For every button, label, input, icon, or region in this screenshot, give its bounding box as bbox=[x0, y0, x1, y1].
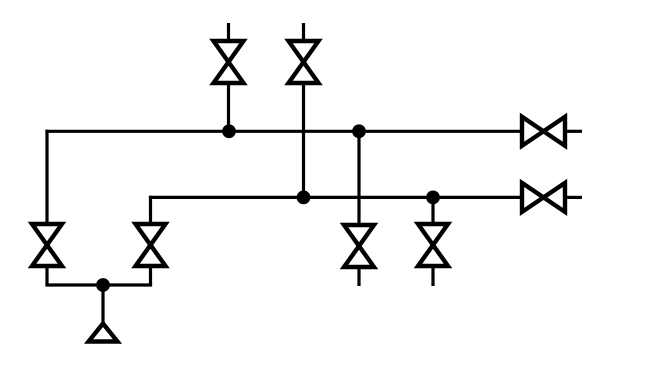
valve V3 (vertical, far left) bbox=[32, 224, 62, 266]
wire V1 bottom to node A bbox=[227, 83, 230, 131]
wire node B down to valve V5 (crosses lower header, no junction) bbox=[357, 131, 360, 225]
wire lower header line bbox=[149, 196, 522, 199]
valve V7 (horizontal, upper right) bbox=[522, 117, 565, 146]
valve V6 (vertical, right lower) bbox=[418, 224, 448, 266]
wire upper header line bbox=[45, 130, 522, 133]
wire bottom drain line bbox=[45, 283, 152, 286]
valve V2 (vertical, top right) bbox=[289, 41, 319, 83]
node A (junction on upper header at valve V1 stem) bbox=[222, 124, 236, 138]
wire V2 bottom to node C (crosses upper header, no junction) bbox=[302, 83, 305, 197]
wire below valve V6 bbox=[431, 266, 434, 286]
wire valve V3 bottom to drain line bbox=[45, 266, 48, 285]
valve V8 (horizontal, lower right) bbox=[522, 183, 565, 212]
vent/drain symbol (open triangle) bbox=[89, 324, 118, 342]
wire stem above valve V1 bbox=[227, 23, 230, 41]
wire stem above valve V2 bbox=[302, 23, 305, 41]
wire node D down to valve V6 bbox=[431, 197, 434, 224]
wire stub right of valve V8 bbox=[567, 196, 582, 199]
valve V4 (vertical, left of drain) bbox=[136, 224, 166, 266]
valve V5 (vertical, middle lower) bbox=[344, 225, 374, 267]
wire left riser from upper header down to valve V3 bbox=[45, 130, 48, 224]
wire valve V4 bottom to drain line bbox=[149, 266, 152, 285]
node C (junction on lower header at valve V2 stem) bbox=[297, 191, 311, 205]
wire riser from lower header down to valve V4 bbox=[149, 196, 152, 224]
node D (junction on lower header at valve V6 stem) bbox=[426, 191, 440, 205]
wire node E down to vent symbol bbox=[101, 285, 104, 325]
wire stub right of valve V7 bbox=[567, 130, 582, 133]
wire below valve V5 bbox=[357, 267, 360, 286]
node E (junction on drain line) bbox=[96, 278, 110, 292]
valve V1 (vertical, top left) bbox=[214, 41, 244, 83]
node B (junction on upper header) bbox=[352, 124, 366, 138]
